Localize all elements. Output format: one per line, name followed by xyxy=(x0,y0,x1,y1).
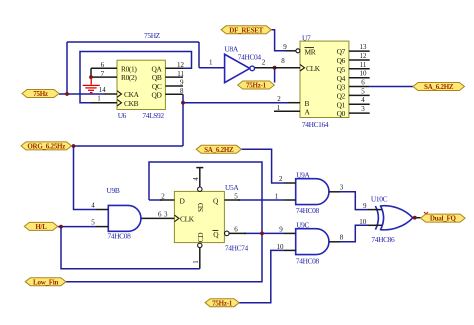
U7 MR overbar xyxy=(305,47,315,49)
U9C part value 74HC08 xyxy=(296,256,320,265)
pin U6.14 CKA xyxy=(104,93,117,95)
svg-text:74HC08: 74HC08 xyxy=(296,256,320,265)
wire U5A Qbar to U9C pin 9 xyxy=(244,232,284,234)
wire U5A Q to U9A pin 1 xyxy=(238,199,284,201)
clock mark U5A CLK xyxy=(174,215,179,222)
pin U6.1 CKB xyxy=(91,102,117,104)
svg-text:12: 12 xyxy=(177,61,185,69)
svg-text:Q5: Q5 xyxy=(337,65,346,74)
no-ERC marker at Dual_FQ xyxy=(424,212,428,216)
U9A part value 74HC08 xyxy=(296,206,320,215)
pin U7.2 B xyxy=(288,102,300,104)
svg-text:6: 6 xyxy=(158,210,162,218)
svg-text:CD: CD xyxy=(196,232,205,243)
svg-text:2: 2 xyxy=(277,95,281,103)
svg-text:1: 1 xyxy=(275,193,279,201)
svg-text:QD: QD xyxy=(152,90,163,99)
svg-text:CKA: CKA xyxy=(124,90,140,99)
pin U5A.3 CLK with U9B output run xyxy=(141,217,175,219)
wire H/L net to U5A CD xyxy=(61,227,200,269)
AND gate U9B 74HC08 xyxy=(108,205,141,231)
wire ORG net down to U9B pin 4 xyxy=(74,146,97,210)
U6 pin numbers xyxy=(97,61,184,102)
svg-text:H/L: H/L xyxy=(35,223,47,231)
svg-text:1: 1 xyxy=(97,94,101,102)
svg-text:12: 12 xyxy=(360,52,368,60)
port Dual_FQ xyxy=(421,214,466,223)
wire to inverter U8A input xyxy=(199,67,225,69)
svg-text:75Hz-1: 75Hz-1 xyxy=(246,82,267,90)
svg-text:CLK: CLK xyxy=(180,215,195,224)
svg-text:R0(2): R0(2) xyxy=(121,73,137,82)
pin U9A.2 xyxy=(284,182,296,184)
pin U10C.10 xyxy=(368,224,382,226)
AND gate U9C 74HC08 xyxy=(296,229,329,255)
svg-text:Q6: Q6 xyxy=(337,56,346,65)
pin U9A.1 xyxy=(284,199,296,201)
U5A designator xyxy=(225,183,239,192)
clock mark U6 CKA xyxy=(117,91,122,98)
svg-text:8: 8 xyxy=(180,87,184,95)
U6 designator xyxy=(118,111,127,120)
wire U5A Qbar feedback to D xyxy=(149,162,262,233)
port DF_RESET xyxy=(221,26,271,35)
wire 75Hz vertical riser xyxy=(66,42,68,94)
U9A designator xyxy=(296,170,310,179)
pin U9B.5 xyxy=(96,226,108,228)
wire U6 QD vertical drop xyxy=(182,94,184,146)
svg-text:SA_6.2HZ: SA_6.2HZ xyxy=(204,146,234,154)
U10C part value 74HC86 xyxy=(371,235,395,244)
wire top run down to inverter row xyxy=(198,42,200,68)
ground symbol at U6 R0 xyxy=(83,77,100,93)
svg-text:13: 13 xyxy=(360,43,368,51)
port Low_Fin xyxy=(25,278,66,287)
U7 designator xyxy=(302,33,311,42)
svg-text:74HC74: 74HC74 xyxy=(225,243,249,252)
svg-text:SA_6.2HZ: SA_6.2HZ xyxy=(424,83,454,91)
U9B part value 74HC08 xyxy=(108,232,132,241)
svg-text:5: 5 xyxy=(91,219,95,227)
wire U7 Q3 to SA_6.2HZ port xyxy=(370,86,413,88)
U6 part value 74LS92 xyxy=(142,111,164,120)
svg-text:U7: U7 xyxy=(302,33,311,42)
junction H/L net branch xyxy=(59,225,63,229)
svg-text:2: 2 xyxy=(161,193,165,201)
svg-text:QA: QA xyxy=(152,64,163,73)
junction U10C output xyxy=(413,216,417,220)
junction CLK net at 75Hz-1 tap xyxy=(273,66,277,70)
svg-text:U9A: U9A xyxy=(296,170,310,179)
port 75Hz-1 upper xyxy=(238,81,275,90)
svg-text:3: 3 xyxy=(361,105,365,113)
svg-text:6: 6 xyxy=(361,79,365,87)
svg-text:SD: SD xyxy=(196,202,205,212)
svg-text:7: 7 xyxy=(101,70,105,78)
U7 part value 74HC164 xyxy=(302,120,329,129)
svg-text:4: 4 xyxy=(361,96,365,104)
pin U10C output xyxy=(413,217,421,219)
svg-text:MR: MR xyxy=(305,47,316,56)
svg-text:11: 11 xyxy=(360,61,367,69)
port 75Hz-1 lower xyxy=(205,299,239,308)
svg-text:9: 9 xyxy=(180,79,184,87)
wire feedback stub into D xyxy=(149,199,162,201)
svg-text:1: 1 xyxy=(277,104,281,112)
svg-text:74HC04: 74HC04 xyxy=(238,53,262,62)
svg-text:14: 14 xyxy=(99,86,107,94)
port SA_6.2HZ right xyxy=(413,83,464,92)
svg-text:CLK: CLK xyxy=(306,64,321,73)
AND gate U9A 74HC08 xyxy=(296,179,329,205)
port ORG_6.25Hz xyxy=(21,142,72,151)
svg-text:75HZ: 75HZ xyxy=(144,31,161,40)
svg-text:10: 10 xyxy=(360,70,368,78)
IC U7 74HC164 body xyxy=(300,41,349,117)
svg-text:QB: QB xyxy=(152,73,162,82)
svg-text:74HC164: 74HC164 xyxy=(302,120,329,129)
XOR gate U10C 74HC86 xyxy=(375,206,412,230)
svg-text:Q4: Q4 xyxy=(337,74,346,83)
U9A pin numbers xyxy=(275,175,344,201)
U10C pin numbers xyxy=(359,202,367,226)
svg-text:1: 1 xyxy=(192,260,200,264)
U7 pin numbers xyxy=(277,43,367,113)
pin U7.9 MR xyxy=(286,49,300,53)
U5A Qbar overbar xyxy=(213,229,219,231)
wire U6 QA feedback to CKB xyxy=(80,52,192,103)
svg-text:U10C: U10C xyxy=(371,194,388,203)
svg-text:3: 3 xyxy=(164,210,168,218)
svg-text:8: 8 xyxy=(281,57,285,65)
svg-text:75Hz-1: 75Hz-1 xyxy=(212,299,233,307)
svg-text:74HC08: 74HC08 xyxy=(108,232,132,241)
U9B pin numbers xyxy=(91,202,95,227)
svg-text:U5A: U5A xyxy=(225,183,239,192)
U9C designator xyxy=(296,220,309,229)
port 75Hz xyxy=(22,90,59,99)
svg-text:Q3: Q3 xyxy=(337,83,346,92)
pin U9C.9 xyxy=(284,232,296,234)
pin U6.9 QC xyxy=(165,85,183,87)
svg-text:ORG_6.25Hz: ORG_6.25Hz xyxy=(27,143,65,151)
svg-text:9: 9 xyxy=(283,43,287,51)
svg-text:Q0: Q0 xyxy=(337,109,346,118)
flip-flop U5A 74HC74 body xyxy=(174,191,224,242)
svg-text:6: 6 xyxy=(101,61,105,69)
pin U5A.4 SD with power bar xyxy=(196,168,203,192)
pin U10C.9 xyxy=(368,209,382,211)
svg-text:Q2: Q2 xyxy=(337,92,346,101)
junction 75Hz net xyxy=(65,92,69,96)
svg-text:U9C: U9C xyxy=(296,220,309,229)
clock mark U7 CLK xyxy=(300,64,305,71)
wire 75Hz-1 drop from CLK line xyxy=(274,68,276,83)
node 75HZ net label xyxy=(144,31,161,40)
svg-text:Dual_FQ: Dual_FQ xyxy=(430,215,457,223)
pin U9B.4 xyxy=(96,209,108,211)
svg-text:R0(1): R0(1) xyxy=(121,64,137,73)
junction Qbar net xyxy=(260,232,264,236)
pin U6.8 QD xyxy=(165,93,183,95)
U8A part value 74HC04 xyxy=(238,53,262,62)
svg-text:5: 5 xyxy=(234,193,238,201)
junction QD net to B branch xyxy=(181,101,185,105)
pin U5A.2 D xyxy=(160,199,174,201)
svg-text:4: 4 xyxy=(91,202,95,210)
wire 75Hz port to U6 CKA xyxy=(59,93,104,95)
inverter U8A 74HC04 xyxy=(225,54,255,82)
svg-text:9: 9 xyxy=(279,226,283,234)
U5A pin numbers xyxy=(158,177,238,264)
svg-text:2: 2 xyxy=(279,175,283,183)
svg-text:CKB: CKB xyxy=(124,99,139,108)
svg-text:10: 10 xyxy=(277,243,285,251)
pin U9C.8 output xyxy=(329,241,340,243)
U9B designator xyxy=(107,186,120,195)
svg-text:6: 6 xyxy=(234,226,238,234)
pin U6.7 R0(2) xyxy=(91,76,117,78)
svg-text:Q7: Q7 xyxy=(337,47,346,56)
svg-text:74LS92: 74LS92 xyxy=(142,111,164,120)
pin U7.1 A xyxy=(274,110,300,112)
svg-text:DF_RESET: DF_RESET xyxy=(229,26,263,34)
svg-text:3: 3 xyxy=(340,183,344,191)
U5A pin names xyxy=(180,196,220,242)
wire DF_RESET to U7 MR xyxy=(271,30,286,51)
port SA_6.2HZ middle xyxy=(196,145,241,154)
svg-text:2: 2 xyxy=(262,59,266,67)
IC U6 74LS92 body xyxy=(117,60,165,109)
svg-text:U6: U6 xyxy=(118,111,127,120)
U10C designator xyxy=(371,194,388,203)
pins U7 Q7..Q0 xyxy=(349,51,370,113)
junction ORG net branch xyxy=(72,144,76,148)
pin U6.12 QA xyxy=(165,67,183,69)
svg-text:9: 9 xyxy=(363,202,367,210)
clock mark U6 CKB xyxy=(117,99,122,106)
svg-text:U8A: U8A xyxy=(225,45,239,54)
U9C pin numbers xyxy=(277,226,344,251)
pin U6.11 QB xyxy=(165,76,183,78)
svg-text:4: 4 xyxy=(192,177,200,181)
pin U5A.1 CD xyxy=(198,243,202,269)
wire QD net to U7 B xyxy=(183,102,288,104)
svg-text:Q1: Q1 xyxy=(337,100,346,109)
pin U9A.3 output xyxy=(329,191,340,193)
U6 pin names xyxy=(121,64,163,108)
wire U9C pin 8 to U10C pin 10 xyxy=(340,225,368,242)
svg-text:5: 5 xyxy=(361,87,365,95)
svg-text:U9B: U9B xyxy=(107,186,120,195)
svg-text:74HC08: 74HC08 xyxy=(296,206,320,215)
U5A part value 74HC74 xyxy=(225,243,249,252)
U7 pin names xyxy=(305,47,346,118)
svg-text:75Hz: 75Hz xyxy=(33,90,48,98)
port H/L xyxy=(24,222,57,231)
pin U7.8 CLK with inverter U8A output run xyxy=(255,67,301,69)
junction R0 ground tie xyxy=(89,75,93,79)
wire U9A pin 3 to U10C pin 9 xyxy=(340,192,368,210)
wire Low_Fin port up to Qbar net xyxy=(66,235,262,282)
svg-text:1: 1 xyxy=(209,59,213,67)
wire SA_6.2HZ port to U9A pin 2 xyxy=(241,149,284,183)
pin U5A.5 Q xyxy=(224,199,240,201)
pin U5A.6 Qbar xyxy=(225,231,247,236)
U8A designator xyxy=(225,45,239,54)
pin number 1 U8A input xyxy=(209,59,213,67)
wire 75HZ top run xyxy=(67,41,199,43)
svg-text:8: 8 xyxy=(340,233,344,241)
pin number 2 U8A output xyxy=(262,59,266,67)
wire R0 tie xyxy=(90,68,92,77)
wire H/L port to U9B pin 5 xyxy=(58,226,96,228)
pin U9C.10 xyxy=(284,249,296,251)
svg-text:B: B xyxy=(305,99,310,108)
svg-text:10: 10 xyxy=(359,218,367,226)
svg-text:Low_Fin: Low_Fin xyxy=(33,278,58,286)
pin U6.6 R0(1) xyxy=(91,67,117,69)
svg-text:74HC86: 74HC86 xyxy=(371,235,395,244)
wire 75Hz-1 port to U9C pin 10 xyxy=(239,250,284,302)
wire QD net to ORG_6.25Hz port xyxy=(72,145,184,147)
svg-text:11: 11 xyxy=(177,70,184,78)
